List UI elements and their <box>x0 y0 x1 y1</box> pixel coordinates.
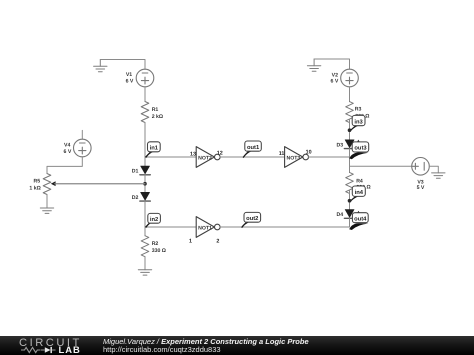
voltage source V4 <box>81 130 83 139</box>
wire junction to R5 wiper <box>55 183 145 185</box>
svg-text:LAB: LAB <box>59 344 81 355</box>
wire ground to V2 top <box>314 59 349 69</box>
wire D2 to in2/R2 <box>144 201 146 236</box>
svg-text:V4: V4 <box>64 143 70 149</box>
wire V3 row to R4 <box>349 166 351 172</box>
wire R1 to in1/D1 junction <box>144 123 146 167</box>
wire R3 to D3 <box>349 119 351 139</box>
label R1 2 kOhm <box>152 107 163 120</box>
svg-text:1 kΩ: 1 kΩ <box>29 185 40 191</box>
wire R2 to ground <box>144 257 146 270</box>
diode D1 <box>140 166 150 175</box>
svg-text:in2: in2 <box>150 216 158 223</box>
wire D4 to out2 row <box>349 218 351 227</box>
svg-text:D1: D1 <box>132 169 139 175</box>
wire D1 to D2 with junction <box>144 175 146 193</box>
svg-text:in1: in1 <box>150 145 159 152</box>
footer bar <box>0 336 474 355</box>
svg-text:11: 11 <box>279 151 285 157</box>
svg-text:13: 13 <box>190 151 196 157</box>
label V2 6V <box>331 72 339 84</box>
label V3 5V <box>417 179 425 191</box>
ground GND4 (top right) <box>307 59 320 71</box>
svg-text:2: 2 <box>216 239 219 245</box>
svg-text:R1: R1 <box>152 107 159 113</box>
label R3 330 Ohm <box>355 106 370 119</box>
diode D3 <box>344 140 354 149</box>
voltage source V1 <box>136 69 154 87</box>
svg-text:NOT1: NOT1 <box>198 225 212 231</box>
ground GND3 (below R5) <box>40 208 53 213</box>
label V1 6V <box>126 72 134 85</box>
wire V1 to R1 <box>144 87 146 102</box>
label R2 330 Ohm <box>152 241 166 254</box>
svg-text:12: 12 <box>217 150 223 156</box>
wire V3 to ground <box>429 166 438 173</box>
flag out3 <box>349 140 369 160</box>
voltage source V3 (horizontal) <box>412 158 430 176</box>
ground GND1 (top left) <box>94 60 107 72</box>
svg-text:in3: in3 <box>354 118 363 125</box>
potentiometer R5 <box>43 174 51 195</box>
wire V2 to R3 <box>349 87 351 102</box>
wire R4 to D4 <box>349 190 351 209</box>
svg-text:6 V: 6 V <box>126 79 134 85</box>
svg-text:R3: R3 <box>355 106 362 112</box>
svg-text:5 V: 5 V <box>417 185 425 191</box>
diode D4 <box>344 210 354 219</box>
flag out2 <box>241 212 261 228</box>
flag in2 <box>145 213 160 228</box>
NOT gate U1 (NOT1) <box>196 217 220 238</box>
flag out1 <box>243 141 262 158</box>
svg-text:out2: out2 <box>246 215 258 222</box>
wire D3 to junction/V3 row <box>349 149 351 167</box>
svg-text:NOT2: NOT2 <box>198 155 212 161</box>
svg-text:1: 1 <box>189 239 192 245</box>
wire NOT2 out to NOT3 in <box>220 156 285 158</box>
ground GND5 (right of V3) <box>432 173 445 178</box>
svg-text:out4: out4 <box>354 216 367 222</box>
svg-text:in4: in4 <box>355 189 364 196</box>
wire R5 to ground <box>46 195 48 208</box>
resistor R4 <box>346 172 354 193</box>
node dot in3 <box>348 128 352 132</box>
svg-text:V1: V1 <box>126 72 132 78</box>
R5 wiper arrow <box>51 181 56 186</box>
svg-text:10: 10 <box>306 150 312 156</box>
svg-text:out3: out3 <box>354 145 367 152</box>
svg-text:6 V: 6 V <box>64 149 72 155</box>
resistor R2 <box>141 236 149 257</box>
wire in1 row to NOT2 input <box>145 156 196 158</box>
svg-text:6 V: 6 V <box>331 79 339 85</box>
label V4 6V <box>64 143 72 156</box>
svg-text:D2: D2 <box>132 195 139 201</box>
wire in2 row to NOT1 input <box>145 226 196 228</box>
svg-text:R5: R5 <box>34 178 41 184</box>
wire ground to V1 top <box>100 60 145 70</box>
svg-text:out1: out1 <box>247 145 260 151</box>
flag in4 <box>350 186 366 202</box>
svg-text:2 kΩ: 2 kΩ <box>152 114 163 120</box>
label R4 330 Ohm <box>356 178 370 190</box>
label R5 1 kOhm <box>29 178 40 191</box>
node junction D1/D2 wiper <box>143 182 147 186</box>
svg-text:R2: R2 <box>152 241 159 247</box>
svg-text:D3: D3 <box>337 142 344 148</box>
flag in1 <box>145 142 160 158</box>
diode D2 <box>140 192 150 201</box>
svg-text:330 Ω: 330 Ω <box>152 248 166 254</box>
resistor R1 <box>141 102 149 123</box>
svg-text:R4: R4 <box>356 178 363 184</box>
svg-text:NOT3: NOT3 <box>286 155 300 161</box>
voltage source V2 <box>341 69 359 87</box>
node dot in4 <box>348 199 352 203</box>
flag in3 <box>350 115 366 131</box>
wire NOT1 out to D4 junction <box>220 226 349 228</box>
circuitlab logo <box>0 336 102 355</box>
svg-text:V2: V2 <box>332 72 338 78</box>
svg-text:D4: D4 <box>337 212 344 218</box>
wire V4 to R5 top <box>47 157 82 174</box>
flag out4 <box>349 211 368 230</box>
resistor R3 <box>346 102 354 123</box>
NOT gate U3 (NOT3) <box>285 147 309 168</box>
ground GND2 (below R2) <box>138 270 151 275</box>
wire NOT3 out to right rail <box>309 156 350 158</box>
wire junction row to V3 <box>350 165 412 167</box>
NOT gate U2 (NOT2) <box>196 147 220 168</box>
